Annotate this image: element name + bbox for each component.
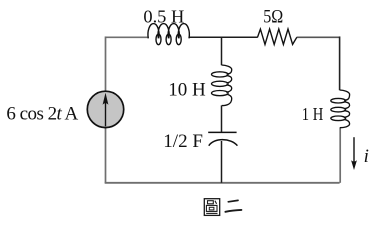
wire left vertical upper (105, 36, 107, 91)
inductor 1 H coil (331, 90, 350, 128)
capacitor 1/2 F curved plate (209, 140, 238, 146)
capacitor 1/2 F top plate (208, 131, 236, 133)
wire top middle segment (189, 36, 258, 38)
wire bottom (105, 182, 340, 184)
wire top-left segment (106, 36, 149, 38)
label figure char tu (204, 199, 219, 216)
wire middle branch top (221, 37, 223, 65)
svg-text:10 H: 10 H (168, 79, 206, 100)
svg-text:6 cos 2t A: 6 cos 2t A (6, 104, 78, 125)
inductor 10 H coil (212, 65, 232, 106)
svg-text:1/2 F: 1/2 F (163, 131, 203, 152)
wire right vertical lower (339, 127, 341, 182)
svg-text:5Ω: 5Ω (263, 6, 283, 27)
svg-text:0.5 H: 0.5 H (143, 7, 184, 27)
current source arrow (105, 97, 107, 126)
svg-text:1 H: 1 H (302, 104, 324, 124)
wire middle branch mid (221, 105, 223, 131)
resistor 5 ohm zigzag (258, 29, 297, 44)
wire middle branch bottom (221, 141, 223, 183)
label figure char two (225, 200, 241, 211)
wire top-right segment (297, 36, 340, 38)
wire left vertical lower (105, 128, 107, 183)
svg-text:i: i (364, 146, 369, 167)
wire right vertical upper (339, 36, 341, 90)
current arrow i (353, 137, 355, 163)
current source I1 circle (87, 91, 123, 127)
inductor 0.5 H coil (148, 24, 189, 45)
